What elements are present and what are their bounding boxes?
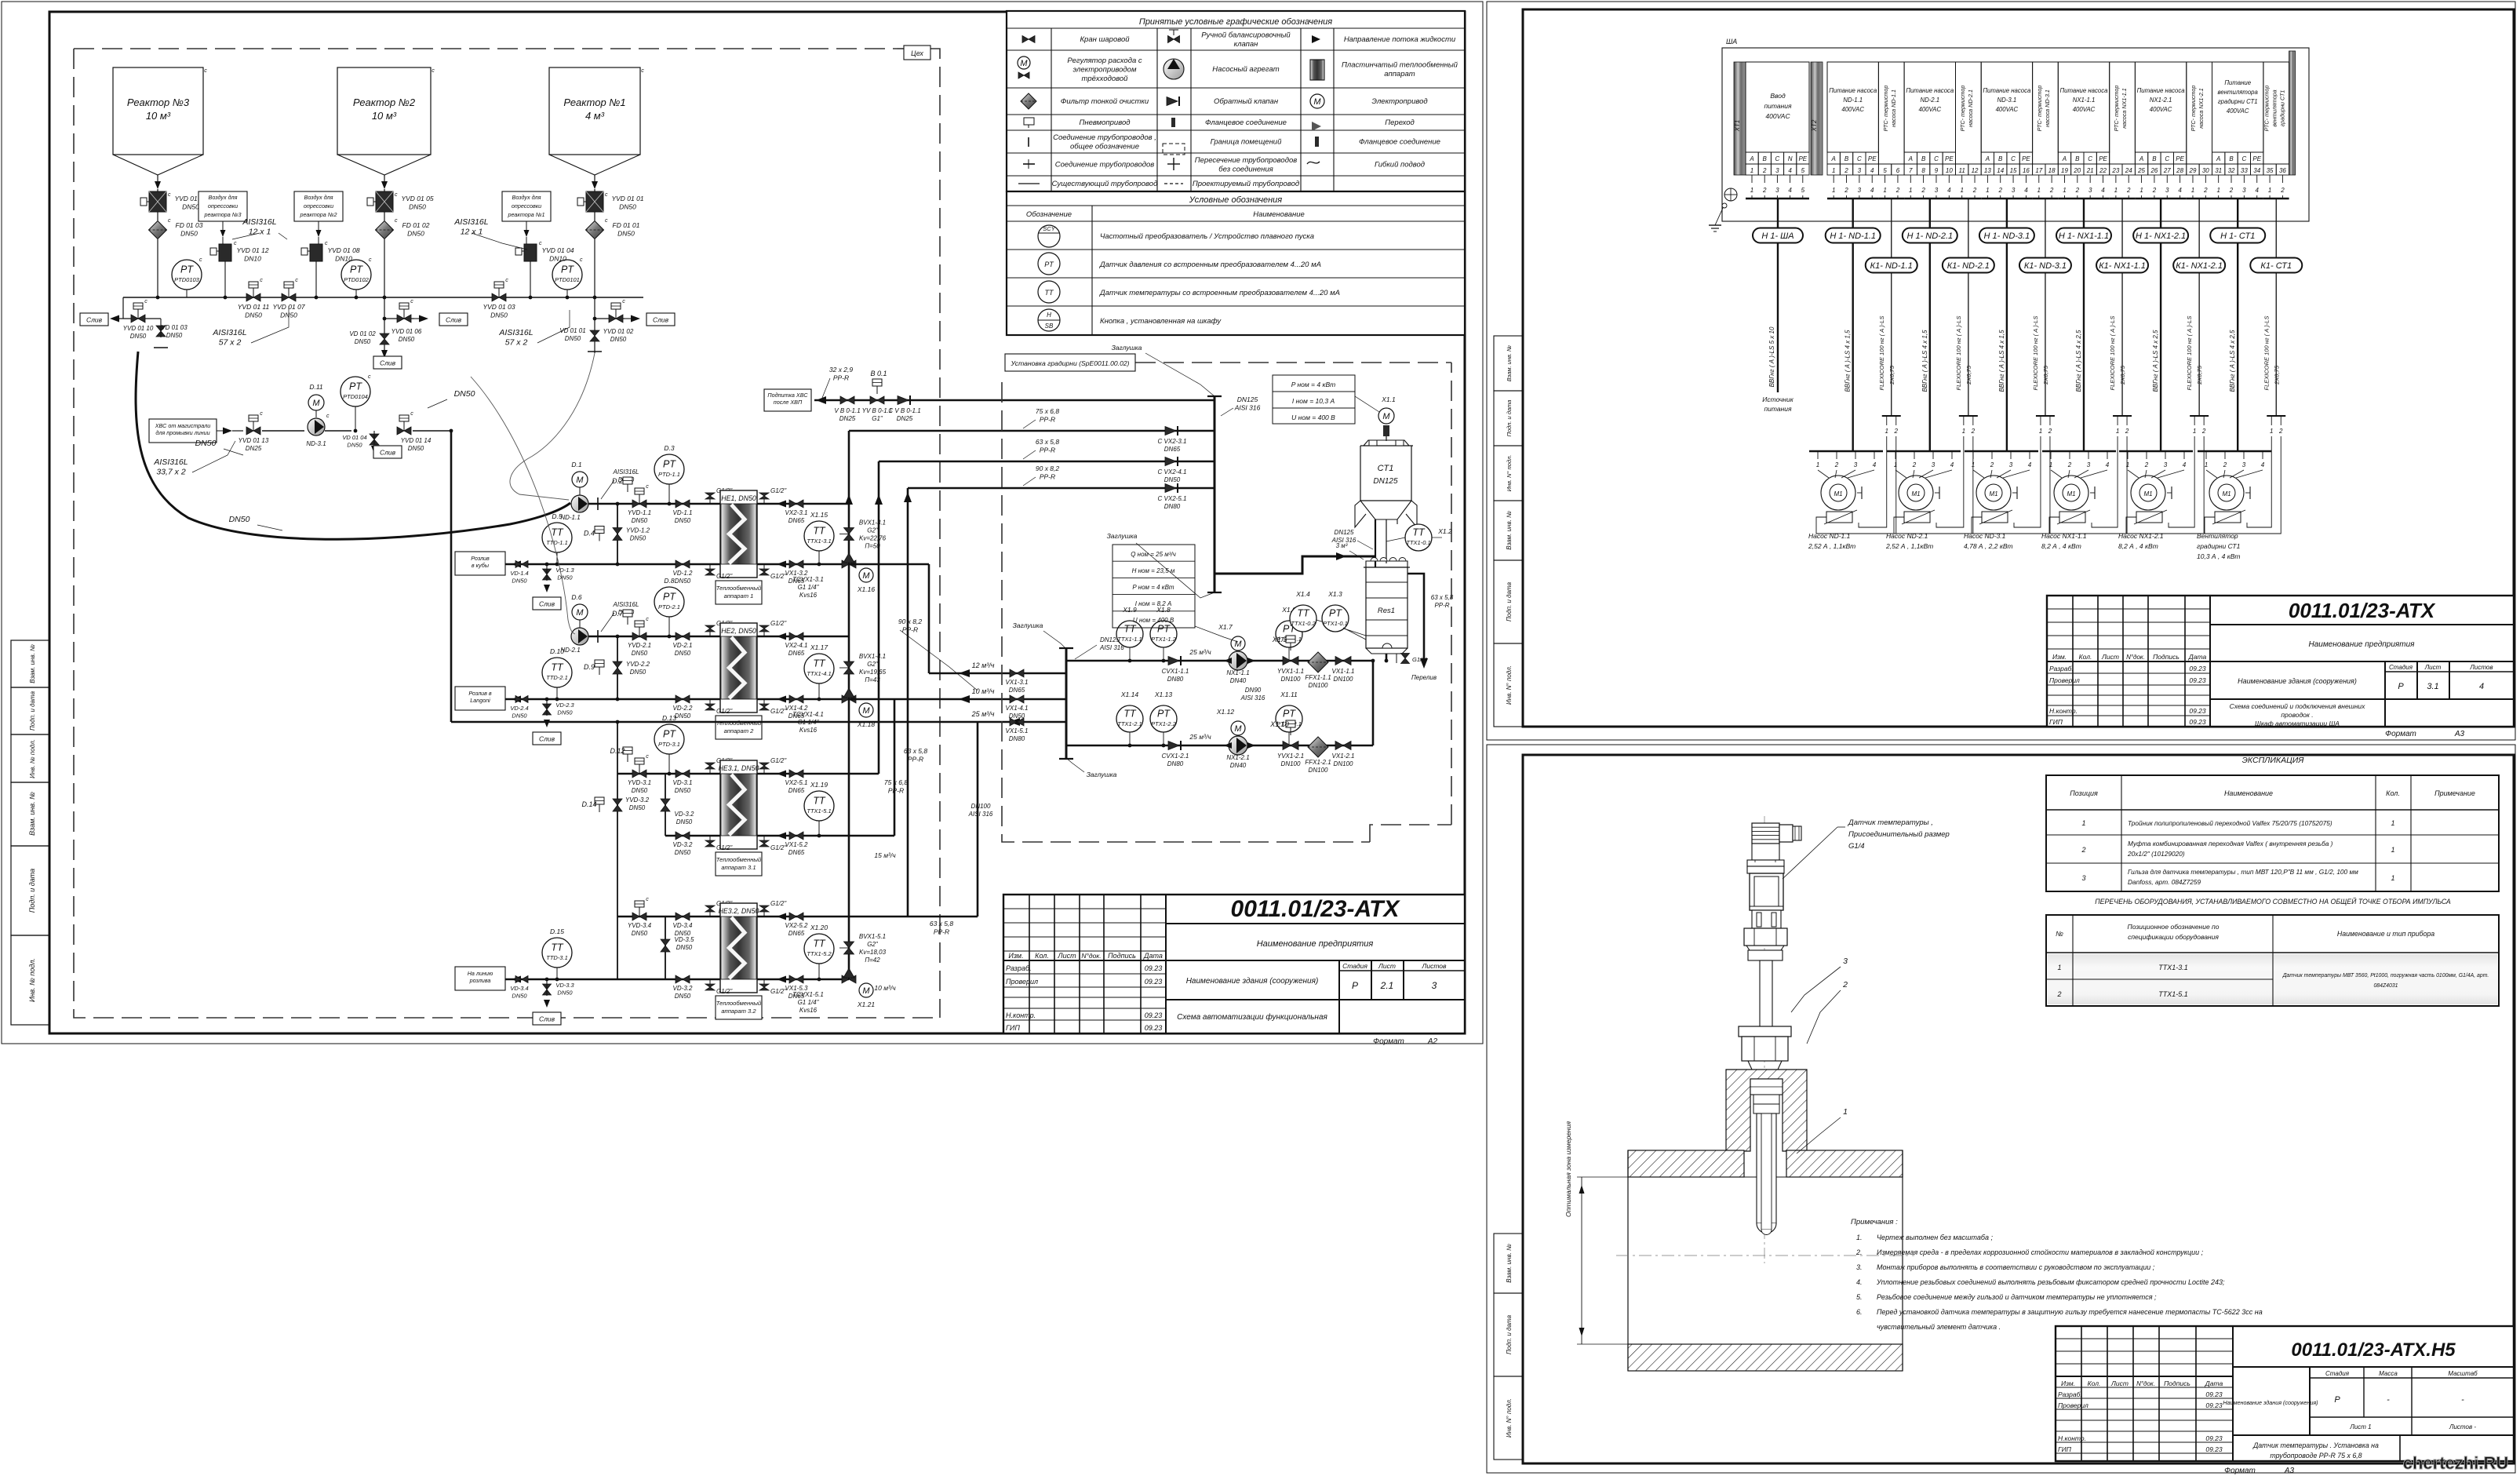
svg-text:400VAC: 400VAC: [1996, 106, 2019, 113]
svg-text:X1.15: X1.15: [810, 511, 828, 519]
svg-text:3: 3: [2165, 187, 2169, 194]
svg-text:TCVX1-5.1: TCVX1-5.1: [792, 991, 824, 998]
svg-text:3: 3: [2009, 461, 2013, 468]
pipe HE3.1 top row: [617, 773, 879, 775]
thermistor resistor (NX1-1.1): [2059, 512, 2085, 523]
svg-text:12: 12: [1972, 167, 1979, 174]
svg-text:Наименование здания (сооружен: Наименование здания (сооружения): [1186, 977, 1319, 986]
svg-text:PTD0103: PTD0103: [174, 276, 200, 283]
svg-text:Воздух для: Воздух для: [512, 194, 541, 201]
svg-text:VX2-5.2: VX2-5.2: [785, 922, 808, 929]
svg-text:Насос ND-2.1: Насос ND-2.1: [1886, 532, 1928, 540]
svg-text:4,78 А , 2,2 кВт: 4,78 А , 2,2 кВт: [1964, 542, 2013, 550]
temperature transmitter TTX1-2.1: [1116, 691, 1143, 747]
heat exchanger HE1: [716, 490, 762, 604]
svg-text:2.1: 2.1: [1380, 980, 1394, 991]
svg-text:Н 1- NX1-2.1: Н 1- NX1-2.1: [2136, 231, 2186, 241]
svg-text:D.6: D.6: [571, 593, 582, 601]
svg-text:DN50: DN50: [629, 804, 646, 811]
svg-text:G1": G1": [872, 415, 883, 422]
svg-text:Взам. инв. №: Взам. инв. №: [1506, 1244, 1513, 1283]
pipe manifold y379: [123, 296, 643, 300]
svg-text:Соединение трубопроводов: Соединение трубопроводов: [1055, 161, 1155, 169]
svg-text:Слив: Слив: [446, 316, 462, 324]
svg-text:Ручной балансировочный: Ручной балансировочный: [1201, 31, 1291, 40]
boundary Установка градирни (dashed): [1002, 354, 1451, 842]
svg-text:Подп. и дата: Подп. и дата: [1506, 1314, 1513, 1354]
svg-text:1.: 1.: [1856, 1234, 1863, 1241]
svg-text:AISI316L: AISI316L: [613, 601, 639, 608]
svg-text:c: c: [605, 218, 608, 224]
svg-text:1: 1: [1894, 461, 1897, 468]
svg-text:4: 4: [2261, 461, 2265, 468]
svg-text:Перед установкой датчика те: Перед установкой датчика температуры в з…: [1877, 1308, 2263, 1316]
G1/2 vents bottom row: [705, 836, 787, 851]
svg-text:TT: TT: [1123, 624, 1137, 635]
svg-text:TT: TT: [813, 796, 826, 807]
svg-text:3: 3: [2087, 461, 2091, 468]
svg-text:TTX1-3.1: TTX1-3.1: [807, 538, 831, 545]
svg-text:Лист: Лист: [2110, 1379, 2129, 1387]
svg-text:VD-2.3: VD-2.3: [555, 702, 574, 709]
sheet 3.1: external wiring diagram (A3): [1487, 2, 2515, 740]
drain valve VD-2.3 with Слив: [533, 698, 574, 745]
stamp columns sheet H5: [1494, 1234, 1523, 1460]
svg-text:реактора №1: реактора №1: [507, 211, 544, 218]
existing pipe curve to ND-2.1: [471, 377, 575, 634]
svg-text:AISI316L: AISI316L: [212, 328, 246, 337]
svg-text:FLEXICORE 100 нг ( А )-LS: FLEXICORE 100 нг ( А )-LS: [2263, 316, 2270, 391]
svg-text:24: 24: [2125, 167, 2132, 174]
svg-text:ND-3.1: ND-3.1: [306, 440, 326, 447]
svg-text:РТС- термистор: РТС- термистор: [1959, 86, 1966, 132]
valve VX2-4.1: [777, 632, 807, 657]
svg-text:2,52 А , 1,1кВт: 2,52 А , 1,1кВт: [1808, 542, 1855, 550]
svg-text:-: -: [2387, 1395, 2390, 1405]
svg-text:Кнопка , установленная на шкаф: Кнопка , установленная на шкафу: [1100, 317, 1222, 326]
svg-text:23: 23: [2111, 167, 2119, 174]
svg-text:B: B: [1998, 155, 2003, 162]
svg-text:2: 2: [2056, 990, 2061, 998]
svg-text:3: 3: [1858, 187, 1862, 194]
svg-text:2: 2: [2081, 846, 2085, 854]
svg-text:опрессовки: опрессовки: [304, 202, 333, 210]
svg-text:Теплообменный: Теплообменный: [716, 1000, 762, 1007]
svg-text:DN50: DN50: [630, 669, 646, 676]
svg-text:4: 4: [1788, 187, 1792, 194]
svg-text:РТС- термистор: РТС- термистор: [2190, 86, 2197, 132]
svg-text:Кол.: Кол.: [2079, 653, 2092, 661]
svg-text:25 м³/ч: 25 м³/ч: [1189, 733, 1211, 741]
svg-text:G2": G2": [867, 941, 879, 948]
svg-text:DN50: DN50: [166, 332, 183, 339]
svg-text:2: 2: [1844, 167, 1848, 174]
svg-text:Kv=19,65: Kv=19,65: [859, 669, 887, 676]
svg-text:вентилятора: вентилятора: [2218, 89, 2259, 96]
balancing valve BVX1-5.1: [839, 933, 887, 964]
leader Датчик температуры: [1783, 818, 1950, 879]
sensor centerline: [1764, 816, 1765, 1263]
svg-text:аппарат: аппарат: [1384, 70, 1415, 78]
svg-text:09.23: 09.23: [2189, 707, 2206, 715]
valve YVD 01 11 DN50: [238, 278, 270, 319]
svg-text:ТТХ1-3.1: ТТХ1-3.1: [2158, 964, 2188, 971]
svg-text:4: 4: [2106, 461, 2110, 468]
svg-text:Подпитка ХВС: Подпитка ХВС: [767, 392, 808, 399]
svg-text:DN50: DN50: [675, 712, 691, 720]
svg-text:К1- NX1-2.1: К1- NX1-2.1: [2176, 261, 2223, 271]
svg-text:VX1-5.1: VX1-5.1: [1006, 727, 1029, 734]
svg-text:Изм.: Изм.: [2052, 653, 2067, 661]
svg-text:D.7: D.7: [612, 610, 624, 618]
svg-text:насоса NX1-1.1: насоса NX1-1.1: [2121, 88, 2128, 129]
svg-text:B: B: [1763, 155, 1768, 162]
svg-text:П=50: П=50: [865, 543, 880, 550]
welded boss (поз.2) hatched: [1726, 1070, 1807, 1151]
svg-text:градирни СТ1: градирни СТ1: [2197, 542, 2241, 550]
svg-text:C: C: [2088, 155, 2092, 162]
svg-text:B 0.1: B 0.1: [870, 370, 887, 377]
pipe pump row NX1-2.1: [1066, 745, 1373, 747]
drain valve VD-3.3 with Слив: [533, 978, 574, 1025]
svg-text:D.8: D.8: [664, 577, 675, 585]
svg-text:2: 2: [1762, 187, 1767, 194]
svg-text:YVD 01 11: YVD 01 11: [238, 303, 270, 311]
svg-text:X1.21: X1.21: [857, 1000, 875, 1008]
svg-text:Оптимальная зона измерения: Оптимальная зона измерения: [1564, 1121, 1572, 1217]
svg-text:Соединение трубопроводов ,: Соединение трубопроводов ,: [1053, 133, 1156, 142]
svg-text:FFX1-1.1: FFX1-1.1: [1305, 674, 1331, 681]
svg-text:PT: PT: [349, 381, 362, 392]
svg-text:DN100: DN100: [1309, 767, 1328, 774]
compression fitting (поз.3): [1739, 1026, 1791, 1070]
reactor R1 (Реактор №1, 4 м3): [549, 67, 644, 189]
svg-text:TTX1-5.1: TTX1-5.1: [807, 807, 831, 815]
thermistor wires to motor ND-2.1: [1894, 502, 1973, 534]
valve VX1-5.1 DN80: [1006, 718, 1029, 742]
svg-text:Лист: Лист: [2424, 664, 2442, 671]
svg-text:C VX2-5.1: C VX2-5.1: [1158, 495, 1187, 502]
svg-text:4: 4: [2028, 461, 2032, 468]
svg-text:Kv=22,76: Kv=22,76: [859, 535, 887, 542]
svg-text:c: c: [410, 411, 413, 417]
valve VD-1.4: [510, 561, 528, 585]
svg-text:NX1-2.1: NX1-2.1: [2150, 97, 2172, 104]
svg-text:3: 3: [2012, 187, 2016, 194]
svg-text:CT1: CT1: [1378, 464, 1394, 473]
svg-text:1: 1: [1986, 187, 1989, 194]
svg-text:DN50: DN50: [676, 944, 693, 951]
svg-text:1: 1: [1909, 187, 1912, 194]
svg-text:PP-R: PP-R: [1040, 416, 1055, 424]
svg-text:3: 3: [1858, 167, 1862, 174]
svg-text:PT: PT: [561, 264, 574, 275]
svg-text:10,3 А , 4 кВт: 10,3 А , 4 кВт: [2197, 552, 2241, 560]
svg-text:Изм.: Изм.: [2061, 1379, 2075, 1387]
svg-text:Инв. № подл.: Инв. № подл.: [29, 739, 36, 778]
svg-text:аппарат 3.1: аппарат 3.1: [721, 864, 756, 871]
valve VX2-3.1: [777, 500, 807, 524]
svg-text:Q ном = 25 м³/ч: Q ном = 25 м³/ч: [1131, 551, 1176, 558]
svg-text:ВВГнг ( А )-LS 4 х 1,5: ВВГнг ( А )-LS 4 х 1,5: [1921, 330, 1928, 392]
svg-text:A: A: [2139, 155, 2143, 162]
svg-text:4: 4: [2479, 682, 2484, 691]
svg-text:c: c: [325, 241, 328, 246]
valve YVX1-1.1 DN100 with flag X1.5: [1272, 636, 1304, 683]
svg-text:YVD 01 05: YVD 01 05: [401, 195, 433, 202]
svg-text:G1 1/4": G1 1/4": [798, 584, 820, 591]
svg-text:спецификации оборудования: спецификации оборудования: [2128, 933, 2219, 941]
svg-text:Измеряемая среда - в предела: Измеряемая среда - в пределах коррозионн…: [1877, 1248, 2204, 1256]
svg-text:2: 2: [2278, 428, 2283, 435]
temperature transmitter TTX1-5.2: [804, 924, 834, 981]
svg-text:VD-3.4: VD-3.4: [510, 985, 528, 992]
svg-text:XT1: XT1: [1734, 120, 1741, 133]
svg-text:Р: Р: [2334, 1395, 2340, 1405]
svg-text:Питание насоса: Питание насоса: [1829, 87, 1877, 94]
valve YVD 01 13 DN25: [239, 411, 304, 452]
svg-text:DN25: DN25: [246, 445, 262, 452]
table ЭКСПЛИКАЦИЯ: [2046, 756, 2499, 891]
svg-text:M: M: [576, 476, 584, 485]
svg-text:1: 1: [2037, 187, 2041, 194]
svg-text:электроприводом: электроприводом: [1073, 66, 1137, 75]
svg-text:PTD0104: PTD0104: [343, 393, 368, 400]
svg-text:A: A: [2216, 155, 2220, 162]
svg-text:насоса ND-1.1: насоса ND-1.1: [1890, 89, 1897, 127]
filter FD 01 02 DN50: [376, 218, 430, 297]
svg-text:Установка градирни (SpE0011.0: Установка градирни (SpE0011.00.02): [1010, 359, 1129, 367]
svg-text:насоса NX1-2.1: насоса NX1-2.1: [2198, 88, 2205, 129]
svg-text:c: c: [580, 257, 583, 263]
svg-text:Цех: Цех: [911, 49, 923, 57]
outlet box На линию розлива: [455, 967, 521, 990]
svg-text:PE: PE: [2252, 155, 2261, 162]
sensor slots section: [1752, 910, 1781, 928]
svg-text:Кол.: Кол.: [2386, 789, 2400, 797]
svg-text:Пересечение трубопроводов: Пересечение трубопроводов: [1195, 156, 1297, 165]
svg-text:2Х0,75: 2Х0,75: [1888, 365, 1895, 385]
svg-text:YVD 01 03: YVD 01 03: [483, 303, 515, 311]
valve VD-1.1 DN50: [673, 500, 693, 524]
valve VD-2.4: [510, 696, 528, 720]
svg-text:32: 32: [2228, 167, 2235, 174]
svg-text:TTX1-0.2: TTX1-0.2: [1291, 620, 1316, 627]
svg-text:ВВГнг ( А )-LS 4 х 2,5: ВВГнг ( А )-LS 4 х 2,5: [2229, 330, 2236, 392]
svg-text:насоса ND-3.1: насоса ND-3.1: [2044, 89, 2051, 127]
svg-text:36: 36: [2279, 167, 2286, 174]
check valve C VX2-5.1 DN80: [1158, 483, 1187, 510]
svg-text:10 м³: 10 м³: [372, 110, 397, 122]
svg-text:D.14: D.14: [581, 800, 596, 808]
svg-text:PT: PT: [1044, 261, 1054, 268]
thermowell sleeve in pipe: [1753, 1104, 1779, 1235]
valve VD-2.2 DN50: [673, 695, 693, 720]
svg-text:Питание насоса: Питание насоса: [1983, 87, 2031, 94]
air vent G1/2 top row: [705, 900, 787, 917]
svg-text:M1: M1: [1989, 490, 1997, 497]
svg-text:FLEXICORE 100 нг ( А )-LS: FLEXICORE 100 нг ( А )-LS: [2032, 316, 2039, 391]
svg-text:ХВС от магистрали: ХВС от магистрали: [155, 422, 211, 429]
svg-text:1: 1: [1832, 187, 1835, 194]
svg-text:AISI 316: AISI 316: [1234, 404, 1261, 412]
svg-text:Лист: Лист: [1057, 952, 1076, 960]
svg-text:TTX1-2.1: TTX1-2.1: [1117, 720, 1142, 727]
valve VX1-5.2: [777, 832, 808, 856]
valve YVD 01 04 DN10: [515, 241, 574, 297]
format label A3 sheet 3.1: [2385, 730, 2464, 738]
svg-text:Источник: Источник: [1762, 395, 1793, 403]
format label A3 sheet H5: [2224, 1467, 2294, 1475]
svg-text:РТС- термистор: РТС- термистор: [1882, 86, 1889, 132]
svg-text:X1.3: X1.3: [1327, 590, 1342, 598]
svg-text:63 x 5,8: 63 x 5,8: [904, 747, 928, 755]
svg-text:Подпись: Подпись: [2153, 653, 2180, 661]
svg-text:SB: SB: [1045, 323, 1054, 330]
svg-text:Розлив в: Розлив в: [468, 690, 492, 697]
svg-text:2: 2: [1895, 187, 1900, 194]
svg-text:ГИП: ГИП: [1006, 1024, 1020, 1032]
svg-text:Воздух для: Воздух для: [304, 194, 333, 201]
svg-text:Р: Р: [2398, 682, 2404, 691]
svg-text:PP-R: PP-R: [902, 626, 918, 634]
svg-text:проводок .: проводок .: [2281, 711, 2313, 719]
svg-text:Реактор №2: Реактор №2: [353, 97, 416, 108]
air vent G1/2 top row: [705, 757, 787, 774]
svg-text:M: M: [576, 608, 584, 618]
svg-text:TT: TT: [551, 662, 564, 673]
leader поз.3: [1791, 957, 1848, 1012]
svg-text:c: c: [646, 754, 649, 760]
svg-text:DN100: DN100: [1309, 682, 1328, 689]
svg-text:TTX1-4.1: TTX1-4.1: [807, 670, 831, 677]
svg-text:2: 2: [2223, 461, 2227, 468]
svg-text:Гильза для датчика температуры: Гильза для датчика температуры , тип МВТ…: [2128, 868, 2358, 876]
svg-text:DN80: DN80: [1164, 503, 1181, 510]
svg-text:400VAC: 400VAC: [2227, 108, 2249, 115]
svg-text:DN100: DN100: [1334, 676, 1353, 683]
svg-text:3: 3: [1843, 957, 1848, 966]
pipe 12 м3/ч line: [849, 564, 1066, 677]
sensor neck collars: [1747, 860, 1784, 873]
svg-text:PP-R: PP-R: [833, 374, 849, 382]
svg-text:6: 6: [1896, 167, 1900, 174]
svg-text:PT: PT: [1157, 709, 1171, 720]
svg-text:DN50: DN50: [355, 338, 371, 345]
stamp column Взам. инв. №: [11, 782, 49, 846]
svg-text:2: 2: [1912, 461, 1917, 468]
svg-text:c: c: [505, 278, 508, 283]
check valve CVX1-2.1 DN80: [1162, 741, 1189, 767]
svg-text:TTD-3.1: TTD-3.1: [546, 954, 568, 961]
svg-text:1: 1: [2270, 428, 2273, 435]
motor label NX1-1.1: [2041, 532, 2087, 550]
svg-text:1: 1: [1962, 428, 1965, 435]
valve VX1-5.3: [777, 975, 808, 1000]
svg-text:2: 2: [2126, 187, 2131, 194]
svg-text:12 x 1: 12 x 1: [249, 228, 271, 237]
svg-text:0011.01/23-АТХ.Н5: 0011.01/23-АТХ.Н5: [2291, 1339, 2456, 1361]
svg-text:после ХВП: после ХВП: [774, 399, 803, 406]
svg-text:PT: PT: [1157, 624, 1171, 635]
svg-text:A: A: [1985, 155, 1990, 162]
svg-text:К1- ND-2.1: К1- ND-2.1: [1947, 261, 1990, 271]
air supply box реактор №3: [198, 191, 247, 253]
svg-text:вентилятора: вентилятора: [2271, 89, 2278, 126]
svg-text:D.13: D.13: [662, 714, 676, 722]
svg-text:75 x 6,8: 75 x 6,8: [1036, 407, 1060, 415]
svg-text:Схема соединений и подключения: Схема соединений и подключения внешних: [2230, 702, 2366, 710]
svg-text:Подпись: Подпись: [2164, 1379, 2190, 1387]
collector DN125 with Заглушка caps: [1107, 344, 1261, 598]
svg-text:Фланцевое соединение: Фланцевое соединение: [1359, 138, 1440, 147]
drain branch R2: VD 01 02 / YVD 01 06: [349, 297, 468, 369]
svg-text:Н 1- СТ1: Н 1- СТ1: [2220, 231, 2255, 241]
pipe 90x8,2 PP-R line y622: [908, 465, 1214, 917]
svg-text:M: M: [862, 571, 870, 581]
pipe 32x2,9 PP-R makeup line: [764, 366, 1214, 411]
svg-text:ПЕРЕЧЕНЬ ОБОРУДОВАНИЯ, УСТАНАВ: ПЕРЕЧЕНЬ ОБОРУДОВАНИЯ, УСТАНАВЛИВАЕМОГО …: [2095, 897, 2451, 906]
power feed cable ВВГнг(А)-LS 5х10: [1753, 199, 1803, 413]
box ХВС от магистрали: [149, 419, 243, 443]
svg-text:VD-1.2: VD-1.2: [673, 570, 693, 577]
valve VD-2.1 DN50: [673, 632, 693, 657]
svg-text:M1: M1: [2067, 490, 2075, 497]
svg-text:Листов: Листов: [1422, 962, 1448, 970]
svg-text:27: 27: [2163, 167, 2171, 174]
svg-text:Регулятор расхода с: Регулятор расхода с: [1067, 56, 1142, 65]
svg-text:Насосный агрегат: Насосный агрегат: [1212, 65, 1279, 74]
svg-text:DN50: DN50: [245, 312, 262, 319]
svg-text:Разраб.: Разраб.: [1006, 964, 1032, 972]
power circuit column ND-3.1: [1981, 62, 2032, 199]
pressure transmitter PTD0104: [340, 374, 371, 432]
svg-text:VD 01 02: VD 01 02: [349, 330, 376, 337]
svg-text:Питание насоса: Питание насоса: [2137, 87, 2186, 94]
svg-text:Наименование здания (сооружен: Наименование здания (сооружения): [2238, 677, 2357, 685]
svg-text:Реактор №3: Реактор №3: [127, 97, 190, 108]
svg-text:1: 1: [2049, 461, 2052, 468]
pressure transmitter PTX1-1.2: [1150, 606, 1211, 662]
svg-text:M1: M1: [2143, 490, 2152, 497]
thermistor circuit column 1: [1878, 62, 1904, 199]
svg-text:П=43: П=43: [865, 676, 880, 683]
valve YVD 01 05 DN50: [367, 189, 434, 220]
svg-text:AISI316L: AISI316L: [242, 217, 276, 227]
pipe DN50 curve (existing): [136, 352, 570, 539]
svg-text:G2": G2": [867, 527, 879, 534]
svg-text:YVD 01 01: YVD 01 01: [611, 195, 643, 202]
pressure transmitter PTD-3.1: [654, 714, 684, 775]
svg-text:VX2-5.1: VX2-5.1: [785, 779, 808, 786]
svg-text:DN50: DN50: [512, 712, 527, 720]
svg-text:C V B 0-1.1: C V B 0-1.1: [888, 407, 920, 414]
svg-text:c: c: [432, 68, 435, 74]
svg-text:2: 2: [1971, 428, 1976, 435]
svg-text:NX1-1.1: NX1-1.1: [2073, 97, 2096, 104]
svg-text:Монтаж приборов выполнять в со: Монтаж приборов выполнять в соответствии…: [1877, 1263, 2155, 1271]
svg-text:X1.14: X1.14: [1120, 691, 1138, 698]
valve YVD 01 09 DN50: [140, 189, 207, 220]
svg-text:Слив: Слив: [86, 316, 103, 324]
svg-text:BVX1-3.1: BVX1-3.1: [859, 519, 886, 527]
pipe HE1 top row: [571, 503, 849, 505]
svg-text:Теплообменный: Теплообменный: [716, 585, 762, 592]
svg-text:DN80: DN80: [1009, 735, 1025, 742]
riser x1246 to HE3.2: [977, 722, 979, 917]
svg-text:X1.1: X1.1: [1381, 395, 1396, 403]
svg-text:Н 1- ND-1.1: Н 1- ND-1.1: [1830, 231, 1876, 241]
